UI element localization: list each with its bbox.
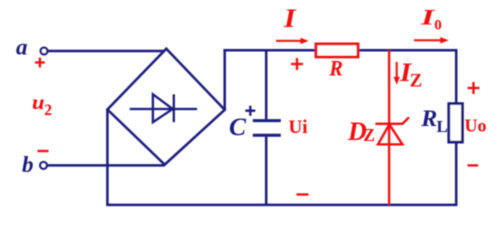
svg-text:Uo: Uo — [465, 116, 487, 136]
svg-text:C: C — [229, 112, 247, 141]
svg-text:L: L — [437, 117, 448, 136]
svg-text:R: R — [328, 56, 342, 81]
svg-text:u: u — [32, 90, 45, 114]
svg-text:Z: Z — [410, 71, 422, 91]
svg-text:a: a — [16, 35, 28, 60]
svg-text:R: R — [420, 106, 437, 131]
svg-text:I: I — [283, 4, 297, 33]
svg-text:Ui: Ui — [289, 117, 308, 138]
svg-text:Z: Z — [363, 125, 375, 145]
svg-text:2: 2 — [44, 102, 52, 119]
svg-text:b: b — [22, 152, 34, 177]
svg-text:0: 0 — [434, 17, 442, 33]
